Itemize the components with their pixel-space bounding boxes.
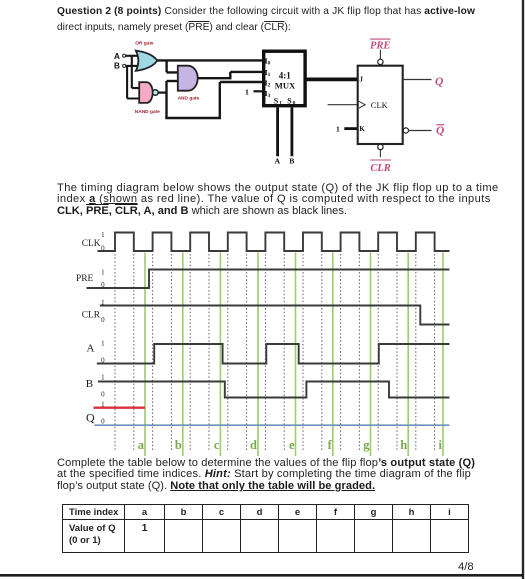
svg-text:NAND gate: NAND gate [135,109,160,115]
svg-text:d: d [250,438,257,452]
svg-text:f: f [328,438,333,452]
svg-text:OR gate: OR gate [135,41,154,47]
svg-text:1: 1 [268,72,271,78]
svg-text:g: g [363,438,370,452]
svg-text:MUX: MUX [275,81,296,91]
svg-text:AND gate: AND gate [178,95,200,101]
svg-text:A: A [87,343,95,355]
svg-text:1: 1 [336,125,340,134]
svg-text:CLK: CLK [82,239,101,249]
svg-text:J: J [359,76,363,84]
svg-text:Q: Q [436,125,444,137]
svg-text:K: K [359,125,365,133]
svg-text:Q: Q [435,76,443,88]
svg-text:i: i [439,438,443,452]
svg-text:0: 0 [101,357,105,365]
svg-text:S: S [274,96,279,105]
svg-text:A: A [275,157,281,166]
svg-text:b: b [175,438,182,452]
svg-text:1: 1 [245,87,249,96]
svg-text:B: B [86,378,93,390]
svg-text:e: e [289,438,295,452]
svg-text:CLR: CLR [82,311,101,321]
svg-text:1: 1 [101,401,105,409]
svg-text:PRE: PRE [76,274,93,284]
svg-text:0: 0 [101,281,105,289]
svg-text:PRE: PRE [370,40,390,51]
svg-text:3: 3 [268,93,271,99]
svg-text:0: 0 [101,418,105,426]
svg-text:B: B [114,61,120,70]
svg-text:4:1: 4:1 [279,71,291,81]
svg-text:2: 2 [268,83,271,89]
svg-text:1: 1 [101,374,105,382]
svg-text:A: A [114,52,120,61]
svg-text:CLK: CLK [371,100,389,110]
svg-text:0: 0 [293,100,296,106]
svg-text:1: 1 [101,340,105,348]
svg-text:1: 1 [101,269,105,277]
svg-text:a: a [138,438,145,452]
svg-text:0: 0 [101,244,105,252]
svg-text:Q: Q [86,411,95,425]
svg-text:CLR: CLR [370,163,390,174]
svg-text:1: 1 [101,231,105,239]
svg-text:B: B [289,157,294,166]
svg-text:S: S [287,96,292,105]
svg-text:1: 1 [101,299,105,307]
svg-text:h: h [400,438,407,452]
svg-text:1: 1 [279,100,282,106]
svg-text:0: 0 [101,316,105,324]
svg-text:c: c [214,438,220,452]
svg-text:0: 0 [101,391,105,399]
svg-text:0: 0 [268,60,271,66]
